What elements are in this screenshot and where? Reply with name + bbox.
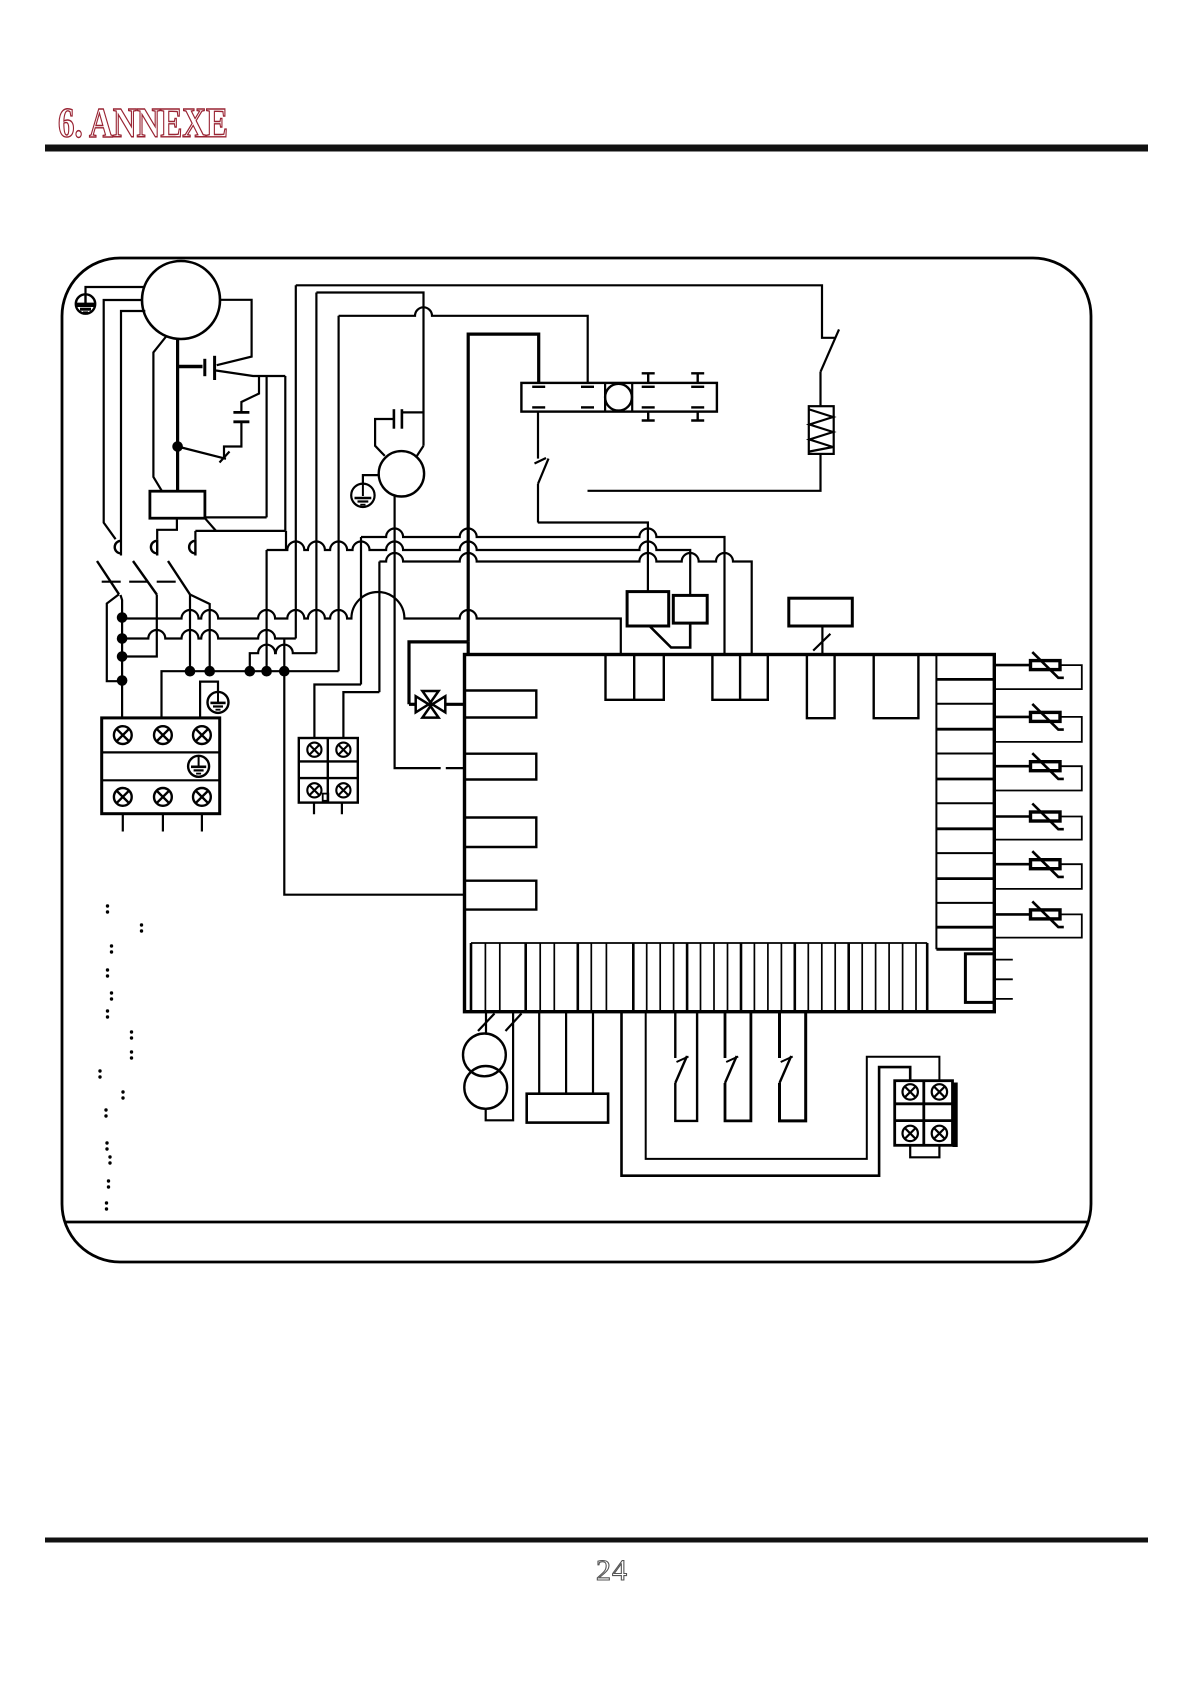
wire fan bottom to PCB connector CN2 (with gap) [395,496,465,768]
wire thick valve feed from x468 [409,642,468,704]
PCB bottom connector strip [471,943,927,1012]
noise filter pin3 pin4 stubs [642,373,655,383]
PCB right pin stubs [994,960,1013,999]
breaker switch arm pole3 [168,561,190,595]
TB1 screw terminals row1 [114,726,211,806]
compressor M1 circle [142,261,220,339]
wire ground G4 to fan [363,475,379,484]
thermistor TH6 [994,901,1082,937]
PCB thermistor ladder column [936,655,994,950]
TB1 earth terminal circle [188,756,209,777]
wire vertical x316 top wire to row 653 [315,293,317,654]
pressure switch SW1 loop [675,1012,697,1121]
noise filter internal dividers [604,383,606,412]
transformer T1 return lead with slash [486,1012,513,1121]
wire vertical x338 top wire to row 671 [338,316,340,671]
relay RY1 coil box [150,491,205,518]
thermistor TH5 [994,851,1082,889]
breaker switch arm pole1 [97,561,119,594]
wire relay to x266 horizontal [205,516,267,518]
TB2 screw terminals [307,743,350,798]
wire thick x468 filter pin1 feed [468,334,539,642]
terminal block TB2 [299,738,358,803]
title 6. ANNEXE [58,101,228,147]
capacitor C1 plates [233,411,249,414]
noise filter FL1 box [521,383,717,412]
TB3 screw terminals [903,1084,948,1141]
wire hook3 drop [194,531,196,540]
transistor Q2 diagonal from node [178,447,226,459]
wire riser x284 node to row L2 [283,639,285,672]
wire row R2 with hops [361,529,725,655]
PCB connector CN-A [465,655,919,910]
relay RY-C box [789,598,853,626]
wire vertical x361 row R2 to TB2 link [360,537,362,685]
PCB connector CN-D [874,655,919,719]
wire IGBT loop x266 vertical [266,376,268,517]
TB2 small notch [323,794,329,801]
transistor Q1 emitter diagonal to loop [216,371,285,377]
four-way valve 20S coil [409,691,465,718]
node dots on pole1 column [117,612,128,623]
fan capacitor leads [375,419,394,456]
thermistor TH2 [994,704,1082,742]
TB1 screw terminals row3 [114,788,132,806]
fan switch under filter pin1 [537,412,539,459]
wire row 671 main with terminal leg [162,671,339,718]
wire vertical x379 row R4 to TB2 link [378,562,380,693]
footer rule [45,1538,1148,1543]
heater return wire to filter pin2 [588,454,821,491]
fan switch tick [535,458,547,464]
PCB left connector CN4 [465,881,537,910]
thermistor TH1 [994,652,1082,689]
legend leader dots [98,904,143,1210]
wire row R4 with hops [379,553,751,655]
wire row L2 with hops [122,630,296,639]
pressure switch SW2 loop [725,1012,751,1121]
PCB connector CN-B [712,655,767,700]
breaker switch arm pole2 [133,561,157,595]
wires PCB to relay RY-D [539,1012,593,1094]
wire TB2 terminal1 link [314,685,361,739]
breaker mechanical link dashed [102,581,177,583]
transistor Q1 IGBT bars [203,359,206,376]
PCB left connector CN2 [465,754,537,780]
terminal block TB1 [102,718,220,814]
noise filter circle [605,384,632,411]
breaker hook pole2 [151,539,157,555]
capacitor C1 top lead [241,376,259,412]
wire fan switch to row R1 [537,484,539,523]
wire relay RY-C lead to PCB with switch slash [821,626,823,655]
noise filter pin bars inner bottom [532,406,545,408]
capacitor C1 bottom lead to Q2 [224,422,241,459]
svg-text:24: 24 [596,1554,628,1587]
frame separator line [65,1221,1089,1224]
wire compressor bottom to relay (thick) [176,339,179,491]
wire row R1 from fan switch to relay A [538,523,648,592]
wire row L1 with crossover hops [122,592,621,655]
wire relay RY1 bottom-left to breaker pole2 [157,518,177,539]
pressure switch SW3 loop [780,1012,806,1121]
relay RY-A box [627,592,669,626]
wire y531 horizontal hook3 to x285 [195,530,285,532]
wire ground G1 to compressor [86,287,145,295]
node dots on row 671 [185,666,196,677]
svg-text:6. ANNEXE: 6. ANNEXE [58,101,228,147]
wire W1 compressor left upper to bus [104,300,143,539]
wire top H2 to fan capacitor [316,293,423,446]
heater resistor R-H box with zigzag [809,406,834,454]
diagram frame rounded rect [62,258,1091,1262]
wire pole2 output [127,595,157,657]
PCB bottom right cell [965,954,994,1003]
thermistor TH3 [994,753,1082,790]
wire vertical x295 top wire to row L2 [295,285,297,638]
wire pole1 main column to terminal block [121,595,123,718]
transistor Q2 tick [220,452,230,463]
wire riser x266 node to row3 [266,550,268,671]
fan motor funnel right [417,446,424,456]
wire PCB pin to TB3 upper-right terminal [646,1012,940,1159]
wire row 653 from node riser [250,645,317,672]
wire IGBT loop right vertical x285 [284,376,286,531]
wire compressor right to IGBT collector [217,300,252,365]
transformer T1 lead with fuse slash [485,1012,487,1034]
noise filter pin bars inner top [532,373,704,420]
wire TB2 terminal2 link [343,692,379,738]
transformer T1 circles [463,1034,506,1077]
fan capacitor C2 plates [393,409,396,429]
TB2 bottom stubs [314,803,342,815]
ground symbol G3 above TB1 [208,692,229,713]
PCB left connector CN1 [465,691,537,718]
heater resistor lead top [819,372,821,406]
wire top H1 to heater switch [296,285,836,338]
node junction dot on compressor lead [172,441,183,452]
PCB left connector CN3 [465,818,537,848]
wire pole1 kink drop [107,594,119,681]
ground symbol G4 fan [351,484,374,507]
wire ground G3 to TB1 [200,682,218,718]
wire PCB pin to TB3 upper-left terminal [622,1012,911,1176]
terminal block TB3 [895,1081,958,1147]
breaker hook pole1 [115,541,121,554]
wire relay RY-A bottom diagonal link [650,623,691,647]
PCB connector CN-C [807,655,835,719]
title underline rule [45,145,1148,152]
wire pole3 output straight [189,595,191,672]
relay RY-B box [673,595,707,623]
fan switch arm [538,459,549,484]
ground symbol G1 (top-left) [76,294,95,313]
transistor Q1 IGBT gate lead (thick) [178,365,203,368]
relay RY-D bottom box [527,1094,608,1123]
fan motor FM circle [379,451,424,496]
breaker hook pole3 [189,539,195,555]
wire pole3 output kink [190,595,210,672]
wire TB3 bottom link U [910,1145,939,1157]
wire row R3 with hops [267,542,691,595]
wire node284 down to PCB connector CN4 [284,671,464,895]
heater switch arm [821,329,840,371]
PCB main board outline [465,655,995,1012]
wire W2 compressor left lower to breaker pole1 [121,311,145,556]
wire row3 jog to relay loop [285,531,287,550]
wire relay RY1 bottom-right diagonal to y531 [205,518,216,531]
wire compressor bottom-left diagonal [153,336,166,491]
wire top H3 to filter pin2 (hop over fan cap wire) [339,307,588,383]
thermistor TH4 [994,804,1082,840]
TB1 bottom stubs [123,814,202,832]
